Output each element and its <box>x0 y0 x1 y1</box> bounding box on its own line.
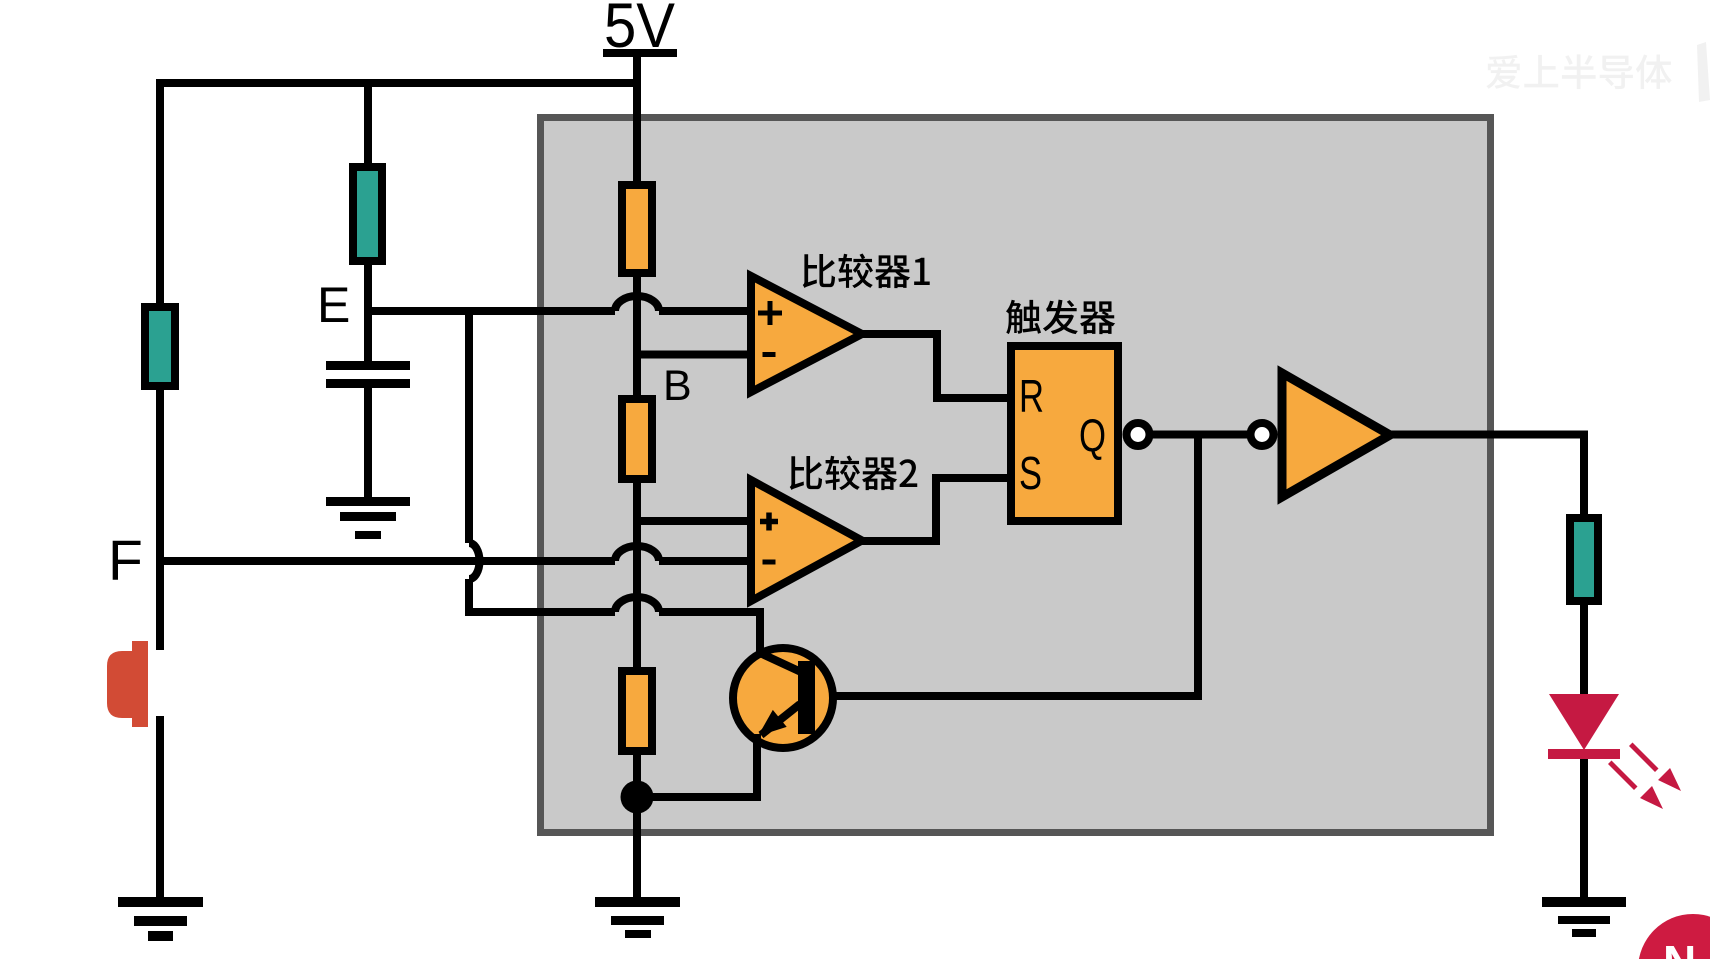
wire node F horizontal with hop over divider <box>160 546 751 561</box>
5V underline <box>603 49 677 57</box>
svg-text:S: S <box>1019 447 1042 499</box>
resistor RLED teal <box>1570 518 1598 601</box>
wire R3 to ground <box>633 755 641 897</box>
inverter bubble 2 <box>1251 423 1274 446</box>
wire R2 to R3 <box>633 483 641 667</box>
ground under capacitor <box>326 497 410 539</box>
wire transistor collector diagonal <box>760 640 801 672</box>
capacitor C1 plate top <box>326 361 410 370</box>
ground under LED <box>1542 897 1626 937</box>
wire Q to bubbles <box>1153 431 1251 439</box>
wire 5V stem <box>633 56 641 181</box>
op-amp comparator2 <box>751 480 862 601</box>
wire left rail upper <box>156 390 164 650</box>
wire buffer output to LED branch <box>1390 435 1584 515</box>
LED D1 triangle <box>1549 694 1619 750</box>
resistor R1 orange <box>622 185 652 273</box>
transistor emitter with arrow <box>761 704 800 735</box>
comparator1 minus sign <box>763 352 776 357</box>
wire RE1 to node E and capacitor <box>364 265 372 361</box>
resistor R2 orange <box>622 399 652 479</box>
junction dot <box>621 781 654 814</box>
svg-text:N: N <box>1663 936 1696 959</box>
ground under left rail <box>118 897 203 941</box>
transistor base bar <box>798 661 815 734</box>
wire R1 to R2 <box>633 277 641 395</box>
resistor R3 orange <box>622 671 652 751</box>
wire Qbar down to transistor base <box>811 435 1198 697</box>
wire comparator2 output to S input <box>862 478 1007 541</box>
label 触发器 <box>1006 300 1115 335</box>
wire divider node to comparator2 plus <box>637 517 751 525</box>
wire node B to comparator1 minus <box>637 351 751 359</box>
LED light arrow 1 <box>1629 743 1687 798</box>
comparator2 minus sign <box>763 560 776 565</box>
flip-flop U1 <box>1011 346 1118 521</box>
svg-text:Q: Q <box>1079 409 1106 461</box>
comparator1 plus sign <box>758 301 782 325</box>
svg-text:E: E <box>317 277 350 333</box>
watermark text 爱上半导体 <box>1486 54 1671 89</box>
wire node E horizontal with hop over divider <box>368 296 751 311</box>
inverter bubble 1 <box>1127 423 1150 446</box>
op-amp comparator1 <box>751 276 862 392</box>
push button SW1 <box>107 641 148 727</box>
LED light arrow 2 <box>1608 761 1669 816</box>
transistor Q1 <box>733 648 833 748</box>
wire top 5V rail <box>160 83 637 303</box>
wire LED to ground <box>1580 756 1588 897</box>
wire LED resistor to LED <box>1580 605 1588 694</box>
ground under divider <box>595 897 680 938</box>
wire left rail lower <box>156 716 164 897</box>
svg-text:B: B <box>663 362 692 410</box>
wire capacitor to ground <box>364 388 372 497</box>
resistor RE1 teal <box>353 167 382 261</box>
svg-text:F: F <box>108 529 143 593</box>
resistor RE2 teal <box>145 307 175 386</box>
wire branch to RE1 <box>364 83 372 163</box>
buffer amplifier <box>1282 373 1390 497</box>
wire comparator1 output to R input <box>862 334 1007 398</box>
label 比较器1 <box>803 254 930 289</box>
IC body gray box <box>541 118 1491 833</box>
svg-text:R: R <box>1019 370 1044 422</box>
LED D1 cathode bar <box>1548 749 1620 759</box>
wire transistor emitter to junction <box>637 734 757 797</box>
watermark swoosh <box>1697 42 1710 102</box>
capacitor C1 plate bottom <box>326 379 410 388</box>
comparator2 plus sign <box>760 513 778 531</box>
logo red circle <box>1638 914 1710 959</box>
wire E branch down, hop over F wire, to collector <box>469 311 760 650</box>
label 比较器2 <box>790 456 918 491</box>
